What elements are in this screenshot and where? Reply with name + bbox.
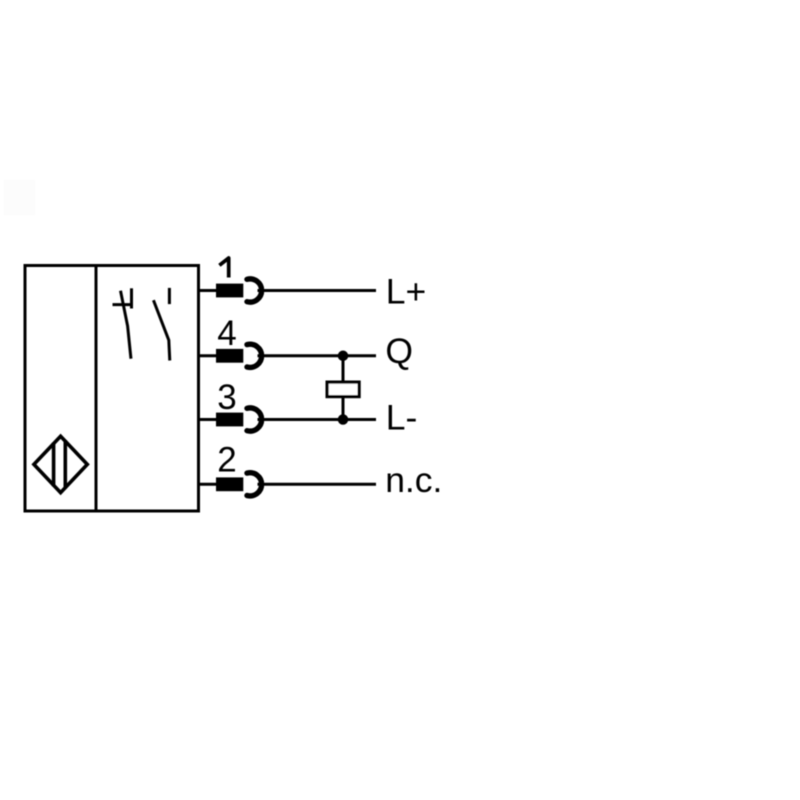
sensor body internal divider (95, 264, 98, 513)
pin 4 stub wire (199, 354, 217, 357)
pin 3 stub wire (199, 418, 217, 421)
pin 2 stub wire (199, 483, 217, 486)
inductive sensor symbol: inner vertical lines (54, 440, 66, 488)
pin 1 socket arc (247, 279, 262, 302)
faint scan artifact square top-left (4, 180, 36, 215)
svg-text:L+: L+ (386, 272, 426, 312)
load branch vertical wire (342, 356, 345, 420)
pin 1 number label (custom arial-style glyph) (219, 258, 228, 278)
junction dot on L- wire (338, 414, 349, 425)
svg-text:Q: Q (385, 331, 413, 371)
wire pin3 to L- (258, 418, 377, 421)
pin 1 stub wire (199, 289, 217, 292)
junction dot on Q wire (338, 351, 349, 362)
svg-text:2: 2 (217, 441, 236, 480)
pin 3 socket arc (247, 408, 262, 431)
svg-text:L-: L- (386, 398, 418, 438)
pin 2 socket arc (247, 473, 262, 496)
pin 4 contact block (216, 349, 243, 363)
wire pin4 to Q (258, 354, 377, 357)
svg-text:3: 3 (217, 378, 236, 417)
svg-text:4: 4 (217, 314, 236, 353)
pin 3 contact block (216, 413, 243, 427)
svg-text:n.c.: n.c. (385, 460, 442, 500)
sensor body outline (25, 266, 199, 512)
inductive sensor symbol: diamond (34, 436, 87, 492)
pin 1 contact block (216, 284, 243, 298)
load resistor RL (327, 382, 359, 397)
pin 4 socket arc (247, 344, 262, 367)
NC contact symbol (114, 290, 132, 357)
NO contact symbol (154, 289, 170, 359)
pin 2 contact block (216, 477, 243, 491)
wire pin2 to n.c. (258, 483, 377, 486)
wire pin1 to L+ (258, 289, 377, 292)
